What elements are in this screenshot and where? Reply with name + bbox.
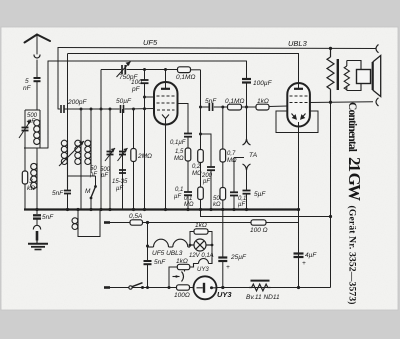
connector mains prong upper — [104, 221, 110, 224]
resistor 0.1MOhm anode — [166, 67, 196, 82]
svg-text:Bv.11 ND11: Bv.11 ND11 — [246, 294, 280, 301]
capacitor 200pF antenna coupling — [61, 105, 64, 113]
resistor 50kOhm — [220, 188, 226, 210]
wire L3 drop left — [47, 61, 49, 148]
title rotated Continental — [345, 102, 364, 305]
node bus junction dots — [35, 208, 300, 211]
svg-text:МΩ: МΩ — [174, 156, 184, 162]
capacitor 5nF antenna series — [34, 78, 41, 110]
wire 200pF branch — [201, 134, 212, 167]
svg-text:50µF: 50µF — [116, 98, 132, 105]
capacitor 200pF AVC — [207, 167, 215, 210]
wire detector row y107 — [201, 106, 288, 107]
svg-text:1kΩ: 1kΩ — [195, 222, 207, 229]
svg-text:0,2: 0,2 — [192, 164, 201, 170]
connector output jack bottom — [376, 98, 379, 106]
wire HT thin line — [201, 210, 331, 217]
svg-text:0,1: 0,1 — [175, 187, 183, 193]
node AVC column x200.5 dots — [199, 106, 202, 136]
svg-text:5nF: 5nF — [205, 98, 217, 105]
svg-text:МΩ: МΩ — [192, 171, 202, 177]
ground symbol — [28, 244, 48, 250]
inductor osc coil B — [75, 140, 81, 210]
svg-text:(Gerät Nr. 3352—3573): (Gerät Nr. 3352—3573) — [347, 206, 358, 305]
capacitor 5nF to ground — [33, 210, 41, 226]
wire mains upper run — [143, 222, 299, 224]
svg-text:5nF: 5nF — [52, 190, 64, 197]
svg-text:0,1MΩ: 0,1MΩ — [225, 98, 244, 105]
lamp 12V 0.1A dial — [190, 239, 212, 251]
resistor 1kOhm lamp shunt — [190, 229, 212, 258]
inductor earth coupling loop — [72, 210, 100, 237]
resistor 100 Ohm cathode — [177, 285, 190, 290]
svg-text:µF: µF — [174, 194, 181, 200]
capacitor 750pF trimmer — [117, 62, 131, 78]
tube UBL3 envelope — [287, 83, 310, 210]
svg-text:21 GW: 21 GW — [345, 157, 364, 201]
node dots bottom line — [221, 286, 300, 289]
node dots row y109 — [80, 107, 147, 110]
inductor osc coil C — [85, 140, 91, 173]
svg-text:kΩ: kΩ — [213, 202, 221, 208]
resistor 3kOhm — [22, 171, 27, 184]
svg-text:nF: nF — [23, 85, 32, 92]
resistor 0.7MOhm — [220, 107, 226, 188]
svg-text:3: 3 — [29, 178, 33, 185]
node dots y69 row — [143, 68, 167, 99]
antenna — [25, 35, 51, 78]
node antenna LC box — [24, 110, 48, 148]
tube UF5 envelope — [154, 82, 178, 210]
svg-text:M: M — [85, 188, 91, 195]
capacitor 100pF — [141, 70, 149, 210]
svg-text:UBL3: UBL3 — [288, 39, 308, 48]
node tuning gang arrow — [59, 141, 84, 166]
capacitor 25uF electrolytic — [218, 210, 227, 288]
capacitor 0.1uF AF — [230, 158, 244, 210]
wire UBL3 anode to output — [310, 101, 331, 103]
svg-text:µF: µF — [116, 186, 123, 192]
wire rectifier output line — [217, 287, 331, 289]
svg-text:12V 0,1A: 12V 0,1A — [189, 253, 214, 259]
wire osc grid row y69.5 — [101, 70, 201, 210]
svg-text:100Ω: 100Ω — [174, 292, 190, 299]
wire L3 rail — [48, 60, 247, 62]
svg-text:1kΩ: 1kΩ — [176, 258, 188, 265]
svg-text:+: + — [302, 260, 306, 267]
wire grid row y109 — [58, 108, 154, 111]
node dots y107 — [221, 106, 248, 109]
svg-text:МΩ: МΩ — [227, 158, 237, 164]
svg-text:100: 100 — [131, 79, 142, 86]
node dots speaker rails — [329, 47, 332, 104]
svg-text:МΩ: МΩ — [184, 202, 194, 208]
wire right rail x330 — [330, 102, 332, 287]
wire main ground bus — [24, 208, 299, 210]
capacitor 100uF electrolytic — [242, 61, 251, 107]
wire heater feed column — [147, 223, 149, 261]
connector earth plug socket — [33, 225, 40, 243]
capacitor 500pF variable — [19, 120, 31, 140]
svg-text:UF5: UF5 — [143, 38, 158, 47]
svg-text:µF: µF — [238, 202, 245, 208]
svg-text:5nF: 5nF — [154, 259, 166, 266]
capacitor tuning variable B — [118, 148, 128, 161]
switch mains on-off — [110, 283, 168, 289]
heater chain UF5 UBL3 — [148, 239, 191, 247]
svg-text:pF: pF — [89, 172, 97, 178]
capacitor 5nF detector — [209, 103, 212, 111]
svg-text:0,1µF: 0,1µF — [170, 140, 186, 146]
resistor 1.5MOhm — [185, 148, 191, 192]
wire grid tap to UF5 — [145, 96, 155, 98]
resistor 2MOhm — [131, 149, 136, 162]
capacitor 0.1uF coupling — [184, 134, 192, 149]
svg-text:1,5: 1,5 — [175, 149, 184, 155]
svg-text:0,7: 0,7 — [227, 151, 236, 157]
speaker — [357, 56, 381, 97]
capacitor trimmer 15-35uF — [119, 170, 126, 173]
svg-text:+: + — [226, 264, 230, 271]
svg-text:100µF: 100µF — [253, 80, 273, 87]
wire L1 top rail — [58, 48, 376, 49]
heater UY3 hump — [190, 258, 212, 267]
wire UF5 grid2 exit — [178, 104, 189, 134]
wire osc column drops — [68, 54, 134, 210]
wire LC to bus — [25, 148, 37, 210]
capacitor 0.1uF cathode — [184, 192, 192, 210]
svg-text:5nF: 5nF — [42, 214, 54, 221]
svg-text:UF5 UBL3: UF5 UBL3 — [152, 250, 183, 257]
connector jack arrow — [173, 270, 185, 282]
connector mains prong lower — [104, 286, 110, 289]
capacitor tuning variable A — [105, 148, 115, 161]
resistor 1kOhm grid stopper — [256, 104, 269, 110]
svg-text:4µF: 4µF — [305, 252, 317, 259]
svg-text:pF: pF — [131, 86, 141, 93]
resistor 100 Ohm mains — [251, 220, 266, 225]
svg-text:1kΩ: 1kΩ — [257, 98, 269, 105]
svg-text:UY3: UY3 — [217, 290, 232, 299]
wire speaker line lower — [331, 101, 374, 103]
resistor 0.2MOhm — [198, 150, 204, 163]
inductor output transformer secondary — [344, 61, 361, 91]
inductor antenna coil L1a — [34, 120, 40, 145]
svg-text:pF: pF — [202, 179, 210, 185]
switch M wave change — [68, 176, 96, 210]
inductor osc coil A — [61, 140, 67, 188]
svg-text:pF: pF — [100, 173, 108, 179]
resistor 0.1MOhm detector — [228, 104, 242, 110]
fuse 0.5A — [110, 213, 143, 225]
svg-text:UY3: UY3 — [197, 267, 209, 273]
resistor 1kOhm hum — [177, 264, 190, 269]
wire B+ column x298 — [298, 210, 300, 288]
capacitor 5nF osc padding — [64, 188, 71, 210]
svg-text:5: 5 — [25, 78, 29, 85]
wire L2 drop to UBL3 anode — [298, 54, 300, 89]
svg-text:200pF: 200pF — [67, 99, 87, 106]
svg-text:5µF: 5µF — [254, 191, 266, 198]
svg-text:0,1MΩ: 0,1MΩ — [176, 74, 195, 81]
node UBL3 cathode box — [276, 111, 318, 133]
wire L2 rail — [68, 53, 299, 55]
capacitor 5uF — [243, 191, 251, 210]
tube UY3 rectifier — [194, 276, 217, 299]
svg-text:100 Ω: 100 Ω — [250, 227, 268, 234]
svg-text:15-35: 15-35 — [112, 179, 128, 185]
capacitor 4uF electrolytic — [294, 254, 304, 258]
capacitor 5nF mains — [144, 261, 152, 288]
wire 1k to switch line — [169, 267, 177, 288]
capacitor 50uF grid — [121, 105, 124, 113]
connector TA pickup jacks — [243, 107, 251, 190]
node transformer core — [337, 59, 339, 90]
resistor ballast Bv11 ND11 — [249, 281, 271, 291]
connector output jack top — [376, 45, 379, 53]
wire L1 drop — [57, 48, 59, 110]
svg-text:ТА: ТА — [249, 152, 257, 159]
inductor coupling coil L1b — [31, 163, 37, 188]
svg-text:25µF: 25µF — [230, 254, 247, 261]
svg-text:kΩ: kΩ — [27, 185, 35, 192]
svg-text:0,5A: 0,5A — [129, 213, 142, 220]
inductor output transformer primary — [327, 48, 334, 102]
resistor 0.1MOhm lower — [198, 187, 204, 200]
svg-text:Continental: Continental — [346, 102, 358, 152]
